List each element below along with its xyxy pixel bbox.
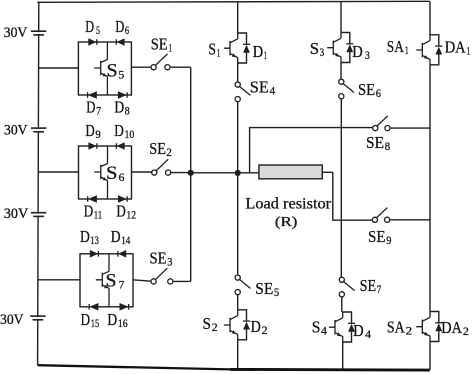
svg-text:5: 5 — [274, 287, 279, 299]
bidirectional cell S7 diode bridge (D13 D14 D15 D16) — [80, 250, 133, 311]
transistor S4 with diode D4 — [329, 312, 355, 342]
switch SE6 — [339, 79, 354, 99]
wire load resistor right terminal — [322, 171, 333, 173]
node junction dot at SE bus — [188, 170, 194, 176]
wire bus tap to cell S6 — [39, 171, 79, 173]
load resistor R — [259, 165, 322, 179]
wire SE3 output — [173, 280, 191, 282]
svg-text:30V: 30V — [0, 312, 24, 328]
wire top rail to S3 — [340, 2, 342, 33]
transistor S3 with diode D3 — [327, 33, 353, 63]
wire SA2 to bottom rail — [429, 342, 431, 370]
wire load right branch to SE9 — [333, 172, 373, 220]
wire left battery bus — [38, 2, 39, 365]
wire top rail to S1 — [237, 2, 239, 33]
svg-text:SE: SE — [150, 249, 167, 268]
battery B3 30V — [31, 213, 46, 217]
wire SE5 to S2 — [237, 295, 239, 310]
svg-text:2: 2 — [212, 322, 218, 334]
svg-text:D: D — [84, 202, 93, 221]
svg-text:11: 11 — [94, 210, 103, 222]
svg-text:S: S — [106, 163, 118, 184]
svg-text:S: S — [107, 61, 118, 82]
svg-text:D: D — [86, 121, 95, 140]
switch SE5 — [235, 275, 250, 295]
switch SE7 — [339, 277, 354, 297]
switch SE9 — [372, 208, 389, 223]
svg-text:15: 15 — [91, 318, 100, 330]
svg-text:D: D — [85, 17, 94, 36]
svg-text:7: 7 — [96, 106, 101, 118]
svg-text:D: D — [352, 42, 363, 61]
svg-text:30V: 30V — [4, 25, 28, 41]
svg-text:5: 5 — [96, 25, 100, 37]
battery B4 30V (bottom) — [30, 316, 45, 320]
svg-text:1: 1 — [217, 48, 221, 60]
switch SE1 — [151, 54, 170, 70]
wire SE1 output — [170, 66, 191, 68]
svg-text:SE: SE — [151, 34, 168, 53]
svg-text:6: 6 — [119, 170, 125, 184]
transistor S1 with diode D1 — [224, 33, 250, 63]
wire bus tap to cell S5 — [39, 67, 79, 69]
wire SE4 to middle bus — [237, 102, 239, 173]
svg-text:SE: SE — [250, 78, 269, 97]
battery plate gaps — [36, 32, 40, 34]
svg-text:DA: DA — [445, 38, 467, 57]
wire top rail to SA1 — [429, 1, 431, 35]
svg-text:30V: 30V — [4, 123, 28, 139]
svg-text:6: 6 — [125, 25, 129, 37]
wire bus tap to cell S7 — [38, 279, 80, 281]
wire middle bus down to SE5 — [237, 173, 239, 275]
wire SA leg midsection — [429, 65, 431, 312]
wire cell S7 to SE3 — [133, 280, 151, 281]
switch SE8 — [373, 116, 390, 131]
svg-text:4: 4 — [365, 329, 371, 341]
wire SE9 to SA leg — [390, 219, 430, 221]
svg-text:D: D — [116, 202, 125, 221]
svg-text:4: 4 — [321, 326, 327, 338]
svg-text:6: 6 — [376, 88, 381, 100]
svg-text:D: D — [111, 227, 121, 246]
svg-text:1: 1 — [405, 45, 409, 57]
battery B1 30V (top) — [31, 31, 46, 35]
svg-text:(R): (R) — [275, 215, 298, 230]
svg-text:D: D — [107, 310, 117, 329]
svg-text:SE: SE — [255, 279, 273, 298]
svg-text:D: D — [81, 310, 90, 329]
switch SE2 — [152, 159, 171, 175]
svg-text:D: D — [114, 121, 124, 140]
bidirectional cell S5 diode bridge (D5 D6 D7 D8) — [78, 38, 131, 99]
node junction dot at S1-S2 leg — [235, 170, 241, 176]
svg-text:D: D — [253, 42, 263, 61]
svg-text:2: 2 — [166, 147, 172, 159]
transistor SA1 with diode DA1 — [416, 35, 442, 65]
wire SE8 to SA leg — [390, 127, 430, 129]
svg-text:13: 13 — [90, 235, 99, 247]
wire cell S6 to SE2 — [132, 171, 152, 173]
svg-text:2: 2 — [463, 326, 469, 338]
svg-text:SA: SA — [387, 318, 405, 337]
svg-text:SA: SA — [387, 37, 405, 56]
svg-text:7: 7 — [377, 284, 382, 296]
switch SE3 — [151, 268, 173, 284]
svg-text:D: D — [115, 17, 124, 36]
svg-text:Load resistor: Load resistor — [245, 196, 331, 213]
bidirectional cell S6 diode bridge (D9 D10 D11 D12) — [79, 142, 132, 203]
transistor SA2 with diode DA2 — [416, 312, 442, 342]
svg-text:S: S — [203, 314, 212, 333]
wire S1 to SE4 — [237, 63, 239, 82]
wire SE vertical bus — [190, 67, 192, 281]
svg-text:S: S — [312, 318, 321, 337]
svg-text:SE: SE — [368, 227, 386, 246]
svg-text:1: 1 — [467, 46, 471, 58]
svg-text:S: S — [310, 39, 319, 58]
svg-text:12: 12 — [126, 210, 136, 222]
svg-text:8: 8 — [385, 141, 391, 153]
svg-text:1: 1 — [169, 42, 173, 54]
wire load left branch to SE8 — [250, 128, 373, 173]
svg-text:D: D — [86, 98, 95, 117]
svg-text:D: D — [353, 321, 364, 340]
svg-text:3: 3 — [320, 47, 325, 59]
switch SE4 — [235, 82, 250, 102]
svg-text:D: D — [114, 98, 124, 117]
wire top rail — [37, 1, 430, 2]
svg-text:SE: SE — [366, 133, 384, 152]
wire S4 to bottom rail — [342, 342, 344, 369]
svg-text:DA: DA — [441, 318, 462, 337]
svg-text:2: 2 — [262, 325, 268, 337]
svg-text:8: 8 — [125, 106, 130, 118]
svg-text:SE: SE — [149, 139, 166, 158]
svg-text:5: 5 — [118, 68, 124, 82]
svg-text:3: 3 — [365, 50, 370, 62]
svg-text:SE: SE — [358, 80, 375, 99]
svg-text:10: 10 — [125, 129, 135, 141]
svg-text:S: S — [106, 271, 117, 292]
svg-text:SE: SE — [360, 276, 377, 295]
wire SE6 to SE7 — [340, 99, 342, 277]
svg-text:D: D — [80, 227, 90, 246]
battery B2 30V — [31, 128, 46, 132]
svg-text:3: 3 — [167, 257, 172, 269]
svg-text:16: 16 — [118, 318, 128, 330]
wire middle bus to load resistor — [191, 172, 259, 174]
transistor S2 with diode D2 — [224, 310, 250, 340]
wire SE7 to S4 — [341, 297, 343, 312]
svg-text:1: 1 — [264, 50, 267, 62]
wire S2 to bottom rail — [237, 340, 239, 368]
svg-text:7: 7 — [119, 278, 125, 292]
wire SE2 output — [171, 172, 191, 174]
wire bottom rail — [38, 365, 230, 369]
wire S3 to SE6 — [340, 63, 342, 80]
svg-text:30V: 30V — [4, 206, 29, 222]
svg-text:2: 2 — [406, 326, 413, 338]
svg-text:4: 4 — [270, 86, 276, 98]
wire cell S5 to SE1 — [131, 66, 151, 68]
svg-text:14: 14 — [121, 235, 130, 247]
svg-text:9: 9 — [95, 129, 101, 141]
svg-text:9: 9 — [386, 235, 391, 247]
svg-text:S: S — [208, 40, 216, 59]
svg-text:D: D — [251, 317, 261, 336]
